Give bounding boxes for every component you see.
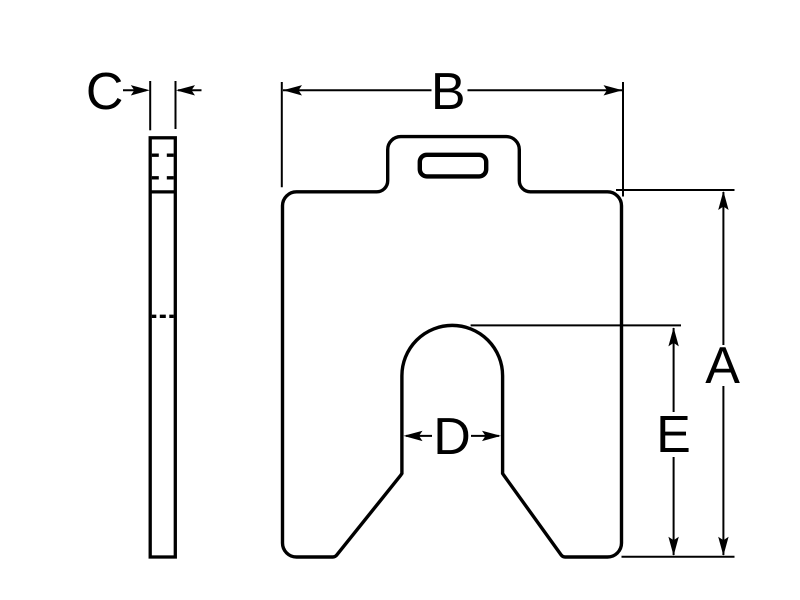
side view hidden line slot bottom	[152, 176, 174, 179]
svg-text:E: E	[656, 406, 691, 464]
handle slot in tab	[420, 155, 486, 177]
dimension C extension lines	[149, 81, 151, 130]
front view plate outline	[283, 137, 622, 557]
dimension C arrows	[123, 89, 146, 91]
dimension A extension lines	[616, 189, 735, 191]
side view hidden line U-slot top	[152, 315, 174, 318]
svg-text:B: B	[431, 63, 466, 121]
dimension D arrows	[406, 435, 432, 437]
side view outline	[150, 138, 175, 557]
side view hidden line slot top	[152, 154, 174, 157]
dimension E line	[673, 328, 675, 412]
dimension B extension lines	[281, 82, 283, 187]
svg-text:A: A	[705, 337, 740, 395]
svg-text:D: D	[433, 408, 471, 466]
side view shoulder line	[150, 190, 175, 193]
svg-text:C: C	[86, 63, 124, 121]
dimension E extension line	[471, 324, 681, 326]
dimension A line	[722, 192, 724, 345]
dimension B line	[283, 89, 432, 91]
